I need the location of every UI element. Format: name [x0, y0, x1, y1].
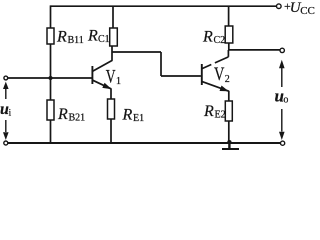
- svg-text:R: R: [56, 29, 67, 46]
- output polarity arrow up: [281, 68, 283, 88]
- resistor RC2: [225, 26, 233, 43]
- wire: RB21 bottom to ground rail: [50, 120, 52, 143]
- wire: RB11 bottom to base node: [50, 44, 52, 100]
- svg-text:2: 2: [225, 74, 230, 85]
- wire: input base wire: [8, 77, 92, 79]
- svg-text:1: 1: [116, 76, 121, 87]
- transistor V1 base bar: [91, 66, 93, 84]
- svg-text:B11: B11: [68, 35, 84, 46]
- svg-text:E1: E1: [133, 113, 144, 124]
- svg-text:V: V: [214, 65, 225, 85]
- input polarity arrow up: [5, 88, 7, 99]
- wire: left bias column top (rail corner down to RB11): [50, 5, 52, 28]
- wire: RC2 bottom stub to output node: [228, 43, 230, 50]
- transistor V2 base bar: [201, 64, 203, 85]
- output polarity arrow down: [281, 109, 283, 132]
- terminal: input top: [4, 76, 8, 80]
- svg-text:C1: C1: [98, 34, 110, 45]
- resistor RB11: [47, 28, 54, 44]
- node: base junction dot: [49, 76, 53, 80]
- svg-text:B21: B21: [69, 113, 86, 124]
- svg-text:R: R: [57, 106, 68, 123]
- terminal: input bottom: [4, 141, 8, 145]
- node: ground junction dot: [227, 140, 231, 144]
- ground symbol: [222, 143, 239, 149]
- terminal: output top: [280, 48, 284, 52]
- wire: RE1 bottom to ground rail: [110, 119, 112, 143]
- svg-text:o: o: [283, 94, 288, 105]
- resistor RE2: [225, 101, 232, 121]
- resistor RC1: [110, 28, 118, 46]
- svg-text:R: R: [203, 103, 214, 120]
- transistor V2 emitter: [202, 82, 229, 101]
- wire: bottom ground rail: [8, 142, 281, 144]
- wire: output node to output terminal: [229, 49, 280, 51]
- transistor V1 emitter: [93, 80, 111, 99]
- svg-text:R: R: [87, 28, 98, 45]
- svg-text:E2: E2: [215, 110, 226, 121]
- svg-text:C2: C2: [214, 35, 226, 46]
- svg-text:R: R: [202, 29, 213, 46]
- wire: RC2 stub from rail: [228, 6, 230, 26]
- resistor RE1: [108, 99, 115, 119]
- transistor V2 collector: [202, 50, 228, 69]
- svg-text:V: V: [106, 68, 116, 88]
- svg-text:R: R: [122, 107, 133, 124]
- input polarity arrow down: [5, 120, 7, 132]
- wire: top supply rail: [51, 5, 277, 7]
- wire: RC1 stub from rail: [112, 6, 114, 28]
- transistor V1 emitter arrow: [103, 83, 111, 88]
- wire: RE2 bottom to ground rail: [228, 121, 230, 143]
- svg-text:CC: CC: [300, 5, 315, 17]
- resistor RB21: [47, 100, 54, 120]
- terminal: +Ucc: [277, 4, 282, 9]
- transistor V1 collector: [93, 46, 113, 71]
- transistor V2 emitter arrow: [220, 86, 228, 91]
- wire: interstage coupling (V1 collector to V2 base): [112, 52, 201, 76]
- terminal: output bottom: [281, 141, 285, 145]
